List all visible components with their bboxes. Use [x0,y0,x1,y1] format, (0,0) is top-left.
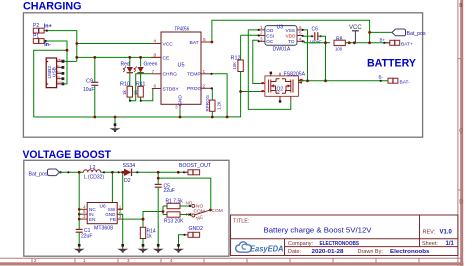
svg-text:8: 8 [154,52,157,58]
connector BAT+ [384,40,413,47]
sheet frame bottom border [0,258,461,262]
svg-text:2: 2 [260,31,263,36]
wire PROG to RPROG [211,88,212,100]
wire L2 to D2 [101,171,124,173]
svg-text:GND2: GND2 [189,226,204,232]
svg-text:NC: NC [196,214,205,222]
svg-text:C9: C9 [86,79,93,85]
svg-text:EasyEDA: EasyEDA [250,244,284,253]
voltage boost section box [24,160,229,256]
svg-text:10uF: 10uF [83,87,94,93]
svg-text:CSI: CSI [266,34,274,39]
svg-text:Drawn By:: Drawn By: [358,249,384,255]
svg-text:D+: D+ [57,70,61,74]
svg-text:VBUS: VBUS [57,58,65,62]
svg-text:U3: U3 [277,25,284,31]
svg-text:3: 3 [83,214,86,219]
ground (MT3608) [117,244,128,253]
svg-text:DW01A: DW01A [273,47,291,53]
IC U5 TP4056 [152,27,212,111]
wire C6 down to B- [325,43,327,81]
wire GND pin down [117,214,123,245]
svg-text:Red: Red [121,62,130,68]
svg-text:NO: NO [186,201,193,206]
svg-text:4: 4 [299,36,302,41]
connector BOOST_OUT [184,170,200,175]
LED D red [123,57,133,86]
wire Bat_pos [370,31,392,33]
junction dots (boost) [78,171,180,221]
svg-text:Bat_pos: Bat_pos [407,31,426,37]
svg-text:1k: 1k [147,233,153,239]
wire rail to MT3608 top [111,172,113,203]
sheet frame right border [458,0,463,266]
svg-text:D-: D- [57,64,60,68]
wire ground rail [34,116,227,118]
wire R12 to FS8205A left pin [241,91,261,93]
svg-text:TD: TD [288,39,295,44]
svg-text:GND: GND [178,95,184,106]
svg-text:C6: C6 [312,27,319,33]
resistor RPROG [205,94,222,117]
wire C1 branch [78,172,80,229]
easyeda logo cloud [236,242,252,252]
resistor R8 [334,36,390,51]
net flag Bat_pos (battery) [392,29,426,37]
wire R11 to STDBY [141,89,153,101]
wire SW up to rail [117,172,123,209]
resistor R13 [164,212,191,225]
wire OC vertical [253,40,260,83]
svg-text:BAT: BAT [190,40,199,46]
net flag Bat_pos (boost input) [29,169,62,177]
ground (C1) [74,244,85,253]
svg-text:VCC: VCC [163,41,174,47]
connector P1 [33,34,46,44]
svg-text:U6: U6 [100,203,106,209]
wire D2 to BOOST_OUT [132,171,188,173]
inductor L2 [84,165,105,180]
svg-text:3: 3 [127,258,130,263]
svg-text:Sheet:: Sheet: [422,241,438,247]
svg-text:Battery charge & Boost 5V/12V: Battery charge & Boost 5V/12V [264,226,372,235]
svg-text:Q2: Q2 [277,87,284,93]
svg-text:2: 2 [203,83,206,89]
svg-text:CE: CE [163,55,171,61]
svg-text:SS34: SS34 [123,163,136,169]
svg-text:2: 2 [34,258,37,263]
wire In- to ground [34,41,67,117]
svg-text:OC: OC [266,39,274,44]
svg-text:STDBY: STDBY [163,86,180,92]
svg-text:22uF: 22uF [164,188,175,194]
svg-text:BAT-: BAT- [400,79,411,85]
svg-text:Electronoobs: Electronoobs [390,249,430,255]
wire BAT to top rail across [211,20,370,43]
wire TEMP down to rail [211,74,227,117]
svg-text:D2: D2 [124,178,131,184]
connector USB2 [46,58,65,88]
svg-text:6: 6 [299,25,302,30]
resistor R10 [120,82,133,101]
svg-text:OD: OD [266,28,274,33]
svg-text:RPROG: RPROG [205,94,210,111]
capacitor C5 [155,172,175,245]
svg-text:1.2K: 1.2K [217,101,222,110]
wire CE rail [77,56,161,58]
svg-text:2020-01-28: 2020-01-28 [312,249,345,255]
wire COM loop to boost out [158,178,211,209]
sheet frame bottom thick band [0,262,464,265]
svg-text:L (CD32): L (CD32) [84,174,104,180]
capacitor C1 [76,228,93,245]
svg-text:7: 7 [152,69,155,75]
wire R14 branch [142,219,144,227]
svg-text:BOOST_OUT: BOOST_OUT [179,163,212,169]
wire boost input rail [60,171,84,173]
svg-text:BATTERY: BATTERY [367,58,417,70]
svg-text:VSS: VSS [286,28,295,33]
svg-text:R13 20K: R13 20K [164,219,184,225]
ground (R14) [138,244,149,253]
svg-text:5: 5 [299,31,302,36]
svg-text:4: 4 [170,258,173,263]
svg-text:1: 1 [260,25,263,30]
svg-text:COM: COM [212,208,223,214]
pin end dots (charging) [45,29,386,102]
power flag VCC [349,25,362,43]
junction dots (charging) [66,31,371,118]
svg-text:In-: In- [44,42,51,48]
svg-text:B-: B- [379,74,384,79]
svg-text:EN: EN [89,217,95,222]
svg-text:1/1: 1/1 [446,241,455,247]
wire GND2 to ground [179,235,185,245]
svg-text:CHRG: CHRG [163,72,178,78]
wire B- rail [298,80,388,82]
svg-text:TEMP: TEMP [187,72,201,78]
wire VSS down to B- rail [303,30,308,81]
resistor R12 [227,35,243,117]
IC U6 MT3608 [82,203,123,232]
svg-text:VOLTAGE BOOST: VOLTAGE BOOST [23,149,112,161]
connector BAT- [388,78,410,85]
resistor R11 [133,82,146,101]
svg-text:MT3608: MT3608 [94,226,113,232]
svg-text:Green: Green [144,62,158,68]
svg-text:Company:: Company: [288,241,314,247]
wire NC/IN/EN to C1 branch [79,209,81,219]
wire TP4056 GND to rail [179,109,181,117]
wire USB VBUS [64,60,77,62]
diode D2 SS34 [123,163,136,184]
svg-text:6: 6 [154,84,157,90]
sheet frame right thick band [460,0,463,266]
svg-text:5: 5 [203,37,206,43]
svg-text:22uF: 22uF [81,234,92,240]
svg-text:3: 3 [260,36,263,41]
svg-text:TITLE:: TITLE: [233,219,250,225]
svg-text:3: 3 [175,105,178,111]
dual mosfet U4 FS8205A [260,71,305,102]
svg-text:C: C [459,129,463,135]
svg-text:VCC: VCC [349,25,362,31]
LED D green [134,57,144,86]
resistor R1 [166,199,191,209]
svg-text:1k: 1k [122,89,127,95]
IC U3 DW01A [259,25,303,53]
svg-text:10K: 10K [232,62,237,70]
svg-text:V1.0: V1.0 [440,230,453,236]
svg-text:4: 4 [154,39,157,45]
svg-text:BAT+: BAT+ [401,41,413,47]
svg-text:CHARGING: CHARGING [23,1,82,13]
svg-text:Bat_pos: Bat_pos [29,171,48,177]
connector GND2 [184,232,200,237]
wire FB node [123,206,167,227]
svg-text:1: 1 [83,258,86,263]
svg-text:PROG: PROG [187,86,202,92]
connector P2 [33,23,47,33]
svg-text:100nF: 100nF [310,40,323,45]
pin end dots (boost) [67,171,191,236]
resistor R14 [140,227,156,245]
capacitor C9 [83,57,98,117]
svg-text:100: 100 [335,47,343,52]
sheet frame column numbers [34,258,173,263]
switch SW NO/COM/NC [186,201,223,223]
svg-text:B+: B+ [380,37,386,42]
ground (C5) [153,244,164,253]
wire TD to R8 row [303,41,330,43]
charging section box [23,13,422,137]
title block border [231,215,458,256]
svg-text:U5: U5 [178,63,185,69]
svg-text:ELECTRONOOBS: ELECTRONOOBS [320,241,360,247]
svg-text:FB: FB [110,217,116,222]
wire In+ to VCC rail [47,31,161,62]
svg-text:In+: In+ [44,23,52,29]
wire VDD to C6 [303,35,314,37]
svg-text:3: 3 [119,214,122,219]
wire CSI to R12 [241,34,259,36]
svg-text:REV:: REV: [423,230,436,236]
svg-text:D: D [459,200,463,206]
ground (charging) [110,117,121,132]
svg-text:Date:: Date: [288,249,302,255]
wire R10 to CHRG [130,74,152,101]
svg-text:VDD: VDD [286,34,297,39]
ground (GND2) [173,244,184,253]
svg-text:GND: GND [57,81,65,85]
svg-text:1: 1 [203,69,206,75]
wire OD vertical [248,30,290,110]
capacitor C6 [310,27,326,45]
